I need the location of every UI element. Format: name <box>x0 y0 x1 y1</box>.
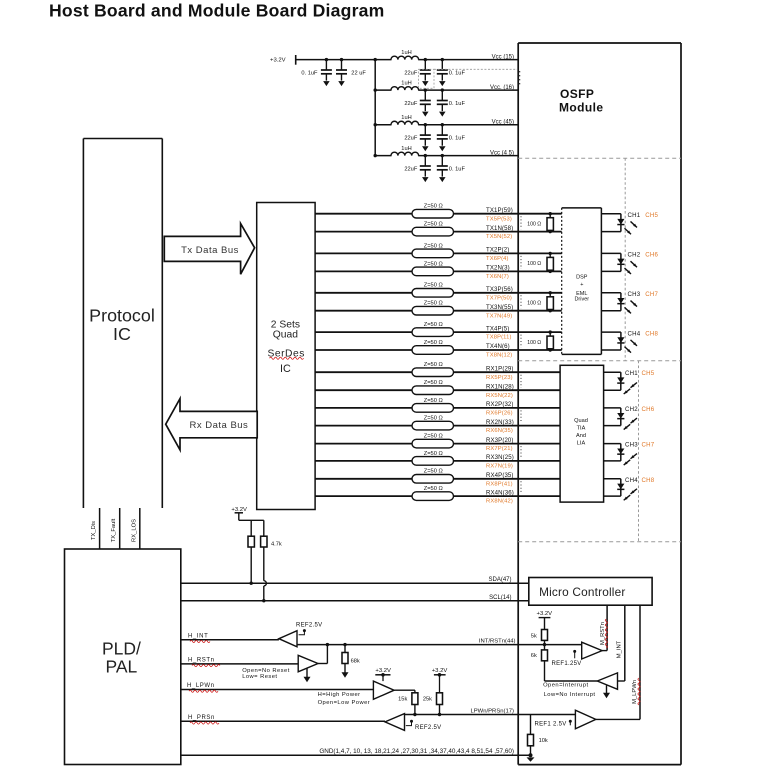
svg-text:22 uF: 22 uF <box>351 70 366 76</box>
svg-text:TX3P(56): TX3P(56) <box>486 286 513 293</box>
svg-text:TIA: TIA <box>577 425 586 431</box>
svg-text:TX5P(53): TX5P(53) <box>486 216 512 222</box>
svg-text:Z=50 Ω: Z=50 Ω <box>424 283 443 289</box>
svg-text:And: And <box>576 433 586 439</box>
svg-text:0. 1uF: 0. 1uF <box>301 70 318 76</box>
svg-text:Driver: Driver <box>574 297 589 303</box>
svg-text:H_RSTn: H_RSTn <box>188 658 215 664</box>
svg-text:0. 1uF: 0. 1uF <box>449 70 466 76</box>
svg-text:RX3P(20): RX3P(20) <box>486 437 514 444</box>
svg-text:CH1: CH1 <box>628 212 641 219</box>
svg-text:Z=50 Ω: Z=50 Ω <box>424 243 443 249</box>
svg-text:Z=50 Ω: Z=50 Ω <box>424 434 443 440</box>
svg-text:0. 1uF: 0. 1uF <box>449 166 466 172</box>
svg-text:CH7: CH7 <box>642 442 655 449</box>
svg-text:RX4P(35): RX4P(35) <box>486 472 514 479</box>
svg-text:Z=50 Ω: Z=50 Ω <box>424 322 443 328</box>
svg-text:Vcc (4 5): Vcc (4 5) <box>490 150 514 156</box>
svg-text:TX2P(2): TX2P(2) <box>486 247 509 254</box>
svg-text:1uH: 1uH <box>401 146 411 152</box>
svg-text:22uF: 22uF <box>404 166 417 172</box>
svg-text:H_LPWn: H_LPWn <box>187 683 215 689</box>
svg-text:Open=Low Power: Open=Low Power <box>318 700 371 706</box>
svg-text:Z=50 Ω: Z=50 Ω <box>424 204 443 210</box>
svg-text:Module: Module <box>559 101 603 115</box>
svg-text:TX1N(58): TX1N(58) <box>486 225 513 232</box>
svg-text:TX8N(12): TX8N(12) <box>486 353 512 359</box>
svg-text:Z=50 Ω: Z=50 Ω <box>424 340 443 346</box>
svg-text:RX8N(42): RX8N(42) <box>486 499 513 505</box>
svg-text:RX5N(22): RX5N(22) <box>486 393 513 399</box>
svg-text:TX_Dis: TX_Dis <box>91 521 97 540</box>
svg-text:RX6P(26): RX6P(26) <box>486 411 513 417</box>
svg-text:CH8: CH8 <box>645 330 658 337</box>
svg-text:RX2N(33): RX2N(33) <box>486 419 514 426</box>
svg-text:REF2.5V: REF2.5V <box>296 622 322 628</box>
svg-text:H_PRSn: H_PRSn <box>188 715 215 721</box>
svg-text:TX_Fault: TX_Fault <box>111 518 117 542</box>
svg-text:Z=50 Ω: Z=50 Ω <box>424 469 443 475</box>
svg-text:LIA: LIA <box>577 440 586 446</box>
svg-text:Z=50 Ω: Z=50 Ω <box>424 486 443 492</box>
svg-text:RX1N(28): RX1N(28) <box>486 383 514 390</box>
svg-text:PLD/: PLD/ <box>102 639 141 659</box>
svg-text:RX_LOS: RX_LOS <box>131 519 137 542</box>
svg-text:IC: IC <box>280 363 291 375</box>
svg-text:68k: 68k <box>351 659 360 665</box>
svg-text:CH7: CH7 <box>645 291 658 298</box>
svg-text:Quad: Quad <box>273 330 298 341</box>
svg-text:DSP: DSP <box>576 274 588 280</box>
svg-text:SDA(47): SDA(47) <box>488 577 511 583</box>
svg-text:100 Ω: 100 Ω <box>527 261 541 267</box>
svg-text:1uH: 1uH <box>401 115 411 121</box>
svg-text:15k: 15k <box>398 696 407 702</box>
svg-text:22uF: 22uF <box>404 136 417 142</box>
svg-text:10k: 10k <box>539 738 548 744</box>
svg-text:4.7k: 4.7k <box>271 541 282 547</box>
svg-text:RX4N(36): RX4N(36) <box>486 489 514 496</box>
svg-text:CH5: CH5 <box>642 370 655 377</box>
svg-text:6k: 6k <box>531 653 537 659</box>
svg-text:TX4P(5): TX4P(5) <box>486 325 509 332</box>
svg-text:CH1: CH1 <box>625 370 638 377</box>
svg-text:Z=50 Ω: Z=50 Ω <box>424 416 443 422</box>
svg-text:TX7N(49): TX7N(49) <box>486 313 512 319</box>
svg-text:Protocol: Protocol <box>89 306 155 326</box>
svg-text:+3.2V: +3.2V <box>270 57 286 63</box>
svg-text:CH6: CH6 <box>645 252 658 259</box>
svg-text:Vcc. (16): Vcc. (16) <box>490 85 514 91</box>
svg-text:+3.2V: +3.2V <box>432 668 448 674</box>
svg-text:+3.2V: +3.2V <box>537 611 553 617</box>
svg-text:Z=50 Ω: Z=50 Ω <box>424 301 443 307</box>
svg-text:CH4: CH4 <box>625 477 638 484</box>
svg-text:RX7N(19): RX7N(19) <box>486 464 513 470</box>
svg-text:TX6N(7): TX6N(7) <box>486 274 509 280</box>
svg-text:RX1P(29): RX1P(29) <box>486 365 514 372</box>
svg-text:M_INT: M_INT <box>617 640 623 658</box>
svg-text:PAL: PAL <box>106 657 138 677</box>
svg-text:1uH: 1uH <box>401 81 411 87</box>
svg-text:Z=50 Ω: Z=50 Ω <box>424 451 443 457</box>
svg-text:Vcc (45): Vcc (45) <box>492 120 514 126</box>
svg-text:TX1P(59): TX1P(59) <box>486 207 513 214</box>
svg-text:+3.2V: +3.2V <box>375 668 391 674</box>
svg-text:Tx Data Bus: Tx Data Bus <box>181 245 239 256</box>
svg-text:Low= Reset: Low= Reset <box>242 674 277 680</box>
svg-text:Quad: Quad <box>574 418 588 424</box>
svg-text:GND(1,4,7, 10, 13, 18,21,24 ,2: GND(1,4,7, 10, 13, 18,21,24 ,27,30,31 ,3… <box>319 748 514 755</box>
svg-text:CH2: CH2 <box>625 406 638 413</box>
svg-text:OSFP: OSFP <box>560 87 594 101</box>
svg-text:Vcc (15): Vcc (15) <box>492 54 514 60</box>
svg-text:RX5P(23): RX5P(23) <box>486 375 513 381</box>
svg-text:Z=50 Ω: Z=50 Ω <box>424 362 443 368</box>
svg-text:+: + <box>580 282 583 288</box>
svg-text:25k: 25k <box>423 696 432 702</box>
svg-text:CH2: CH2 <box>628 252 641 259</box>
svg-text:0. 1uF: 0. 1uF <box>449 136 466 142</box>
svg-text:CH8: CH8 <box>642 477 655 484</box>
svg-text:Z=50 Ω: Z=50 Ω <box>424 261 443 267</box>
svg-text:REF1 2.5V: REF1 2.5V <box>535 722 567 728</box>
svg-text:INT/RSTn(44): INT/RSTn(44) <box>479 639 516 645</box>
svg-text:H_INT: H_INT <box>188 634 208 640</box>
svg-text:LPWn/PRSn(17): LPWn/PRSn(17) <box>470 708 514 714</box>
svg-text:REF1.25V: REF1.25V <box>552 661 582 667</box>
svg-text:TX5N(52): TX5N(52) <box>486 234 512 240</box>
svg-text:100 Ω: 100 Ω <box>527 300 541 306</box>
svg-text:REF2.5V: REF2.5V <box>415 725 441 731</box>
svg-text:Rx Data Bus: Rx Data Bus <box>189 420 248 431</box>
svg-text:CH5: CH5 <box>645 212 658 219</box>
svg-text:100 Ω: 100 Ω <box>527 340 541 346</box>
svg-text:TX8P(11): TX8P(11) <box>486 335 512 341</box>
svg-text:22uF: 22uF <box>404 70 417 76</box>
svg-text:Z=50 Ω: Z=50 Ω <box>424 398 443 404</box>
svg-text:Open=Interrupt: Open=Interrupt <box>543 682 588 688</box>
svg-text:TX2N(3): TX2N(3) <box>486 265 510 272</box>
svg-text:TX6P(4): TX6P(4) <box>486 256 509 262</box>
svg-text:22uF: 22uF <box>404 101 417 107</box>
svg-text:Micro Controller: Micro Controller <box>539 585 625 599</box>
svg-text:1uH: 1uH <box>401 50 411 56</box>
svg-text:M_LPWn: M_LPWn <box>632 680 638 704</box>
svg-text:RX7P(21): RX7P(21) <box>486 446 513 452</box>
svg-text:RX8P(41): RX8P(41) <box>486 481 513 487</box>
svg-text:CH6: CH6 <box>642 406 655 413</box>
svg-text:RX3N(25): RX3N(25) <box>486 454 514 461</box>
svg-text:TX4N(6): TX4N(6) <box>486 343 510 350</box>
svg-text:5k: 5k <box>531 634 537 640</box>
svg-text:100 Ω: 100 Ω <box>527 221 541 227</box>
svg-text:CH3: CH3 <box>625 442 638 449</box>
svg-text:RX2P(32): RX2P(32) <box>486 401 514 408</box>
svg-text:RX6N(35): RX6N(35) <box>486 428 513 434</box>
svg-text:SCL(14): SCL(14) <box>489 595 511 601</box>
svg-text:Host Board and Module Board Di: Host Board and Module Board Diagram <box>49 0 384 20</box>
svg-text:CH4: CH4 <box>628 330 641 337</box>
svg-text:H=High Power: H=High Power <box>318 692 361 698</box>
svg-text:TX7P(50): TX7P(50) <box>486 295 512 301</box>
svg-text:TX3N(55): TX3N(55) <box>486 304 513 311</box>
svg-text:IC: IC <box>113 324 131 344</box>
svg-text:CH3: CH3 <box>628 291 641 298</box>
svg-text:0. 1uF: 0. 1uF <box>449 101 466 107</box>
svg-text:Z=50 Ω: Z=50 Ω <box>424 380 443 386</box>
svg-text:Low=No Interrupt: Low=No Interrupt <box>544 692 596 698</box>
svg-text:Z=50 Ω: Z=50 Ω <box>424 222 443 228</box>
